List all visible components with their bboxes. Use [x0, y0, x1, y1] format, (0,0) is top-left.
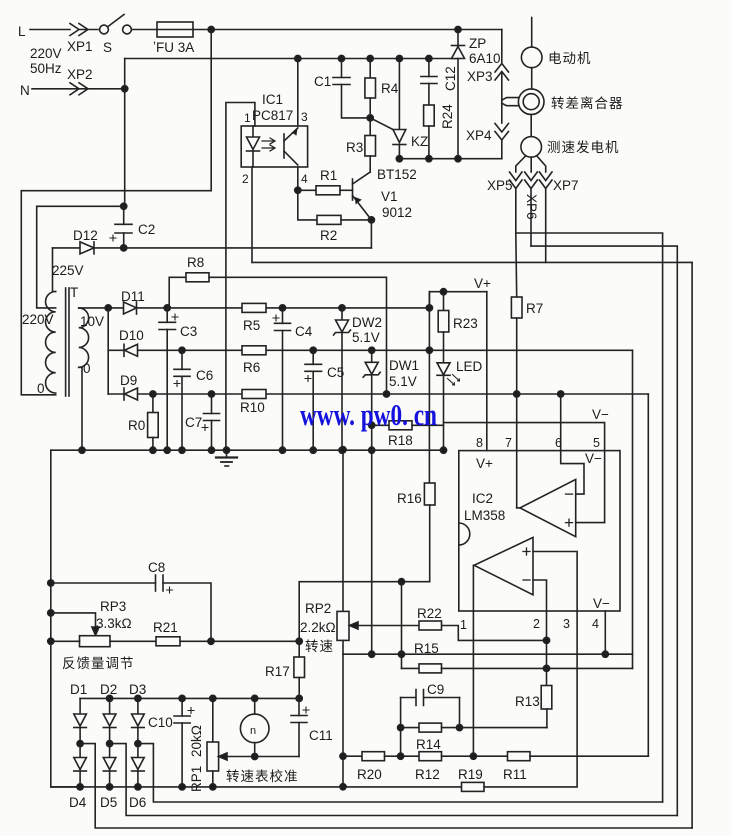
capacitor C10 [179, 695, 185, 701]
node sec top split [105, 305, 111, 311]
potentiometer RP2 body [342, 450, 344, 612]
wire secondary 0 tap down [79, 367, 82, 450]
resistor R18 [372, 424, 389, 426]
wire XP3 XP4 column [501, 30, 503, 64]
svg-text:C10: C10 [148, 715, 173, 730]
node N col 206 [121, 203, 127, 209]
resistor R0 [152, 394, 154, 413]
meter M [252, 695, 258, 701]
svg-text:1: 1 [460, 618, 467, 632]
svg-text:转速表校准: 转速表校准 [226, 768, 299, 784]
svg-text:ʼFU 3A: ʼFU 3A [153, 40, 194, 55]
node row58 C1 [338, 55, 344, 61]
svg-text:R7: R7 [526, 301, 543, 316]
wire D12 row [53, 247, 372, 249]
svg-text:C7: C7 [185, 415, 202, 430]
wire IC1 pin4 down [297, 167, 299, 190]
svg-text:R12: R12 [415, 767, 440, 782]
SEC7 labels [18, 24, 624, 810]
diode D2 [109, 698, 111, 714]
wire pin4 column [604, 611, 606, 654]
wire left drop from fuse junction [21, 30, 211, 395]
resistor R21 [156, 637, 180, 646]
wire D2 mid tap to bottom bus2 [110, 744, 678, 816]
resistor R6 [242, 346, 266, 355]
svg-text:R11: R11 [503, 767, 527, 782]
svg-text:XP7: XP7 [553, 178, 579, 193]
wire V+ jog [429, 292, 486, 308]
resistor R8 [169, 277, 186, 308]
wire V- row to pin5 [444, 423, 605, 523]
wire row2 D10 [108, 349, 632, 351]
svg-text:V−: V− [593, 596, 610, 611]
resistor R15 row [402, 667, 420, 669]
svg-text:反馈量调节: 反馈量调节 [62, 656, 135, 671]
svg-text:R8: R8 [187, 255, 204, 270]
wire BT152 row [399, 158, 501, 160]
svg-text:R6: R6 [243, 360, 260, 375]
resistor R4 [369, 59, 371, 79]
wire N column down to C2 [124, 59, 126, 207]
wire R15 left leg [401, 582, 403, 669]
svg-text:R5: R5 [243, 318, 260, 333]
svg-text:RP1: RP1 [189, 766, 204, 792]
svg-text:20kΩ: 20kΩ [189, 725, 204, 757]
node row2 C5 [310, 347, 316, 353]
potentiometer RP3 wiper [51, 613, 96, 629]
capacitor C9 loop [401, 690, 460, 706]
svg-text:6A10: 6A10 [469, 51, 501, 66]
motor circle [531, 18, 533, 48]
node row1 DW2 [339, 305, 345, 311]
resistor R5 [242, 303, 266, 312]
op-amp U2A triangle [520, 479, 576, 536]
svg-text:R24: R24 [440, 104, 455, 129]
wire Vplus column with R16 [428, 292, 430, 483]
diode D11 [124, 302, 137, 314]
transistor V1 [352, 179, 354, 200]
resistor R13 [546, 668, 548, 685]
wire secondary top row1 [79, 307, 430, 309]
svg-text:4: 4 [301, 172, 308, 186]
svg-text:XP3: XP3 [467, 69, 493, 84]
svg-text:D5: D5 [100, 795, 117, 810]
wire tacho to XP5 [516, 156, 526, 172]
wire D1 mid tap to bottom bus3 [80, 744, 692, 828]
svg-text:C9: C9 [427, 682, 444, 697]
op-amp U2A plus wire to pin5 [576, 522, 605, 524]
svg-text:R15: R15 [414, 641, 439, 656]
svg-text:D2: D2 [100, 682, 117, 697]
node pin2 R15 [543, 665, 549, 671]
transformer core [65, 288, 67, 396]
svg-text:5.1V: 5.1V [389, 374, 417, 389]
svg-text:8: 8 [476, 436, 483, 450]
capacitor C7 [211, 394, 213, 414]
SEC2 [51, 273, 649, 658]
svg-text:5: 5 [593, 436, 600, 450]
IC2 box [459, 451, 620, 611]
capacitor C5 [312, 350, 314, 364]
transformer T primary coil [46, 292, 56, 394]
capacitor C4 [282, 308, 284, 323]
op-amp U2B minus wire to pin2 [533, 580, 547, 668]
wire D3 mid tap to bottom bus1 [138, 744, 663, 802]
wire XP7 long column right [691, 262, 693, 828]
svg-text:n: n [250, 725, 256, 737]
svg-text:DW1: DW1 [389, 358, 419, 373]
wire RP2 bottom column [342, 654, 344, 787]
op-amp U2B plus wire to pin3 [533, 552, 577, 787]
wire row 58 to right components [125, 58, 458, 60]
svg-text:D3: D3 [129, 682, 146, 697]
svg-text:C8: C8 [148, 560, 165, 575]
resistor R7 on XP5 column [511, 297, 522, 318]
potentiometer RP1 wiper [219, 753, 227, 760]
svg-text:R4: R4 [381, 81, 399, 96]
svg-text:R21: R21 [153, 620, 178, 635]
wire row2 descent to V- bottom [632, 350, 634, 668]
diode D5 [109, 744, 111, 758]
wire XP5 long row [516, 233, 663, 802]
svg-text:L: L [18, 24, 26, 39]
node row1 C4 [279, 305, 285, 311]
svg-text:XP2: XP2 [67, 67, 93, 82]
svg-text:7: 7 [505, 436, 512, 450]
tacho generator circle [521, 137, 542, 158]
svg-text:ZP: ZP [469, 36, 486, 51]
svg-text:R19: R19 [458, 767, 483, 782]
capacitor C3 [166, 308, 168, 322]
svg-text:V−: V− [585, 451, 602, 466]
svg-text:D1: D1 [70, 682, 87, 697]
LED [437, 363, 450, 375]
ground symbol [226, 450, 228, 457]
wire pin7 column [516, 394, 518, 508]
connector XP7 arrows [539, 172, 552, 189]
svg-text:C3: C3 [180, 324, 197, 339]
svg-text:R10: R10 [240, 400, 265, 415]
svg-text:C4: C4 [295, 324, 313, 339]
node C2 bottom on D12 row [121, 245, 127, 251]
svg-text:电动机: 电动机 [548, 51, 592, 66]
svg-text:220V: 220V [30, 46, 62, 61]
clutch fork [502, 98, 519, 101]
svg-text:RP3: RP3 [100, 599, 126, 614]
svg-text:C11: C11 [309, 728, 333, 743]
svg-text:225V: 225V [52, 263, 84, 278]
zener DW1 [371, 350, 373, 362]
SEC4 V+ / IC2 region [424, 233, 648, 787]
svg-text:0: 0 [37, 381, 45, 396]
resistor R24 [424, 105, 435, 126]
wire XP6 long row [531, 246, 677, 815]
resistor R14 row [401, 727, 419, 729]
svg-text:LED: LED [456, 359, 483, 374]
svg-text:D9: D9 [120, 373, 137, 388]
wire D bottom long row with R19 [51, 786, 462, 788]
svg-text:V1: V1 [381, 189, 398, 204]
node row3 R0 [150, 391, 156, 397]
switch S [100, 25, 109, 34]
svg-text:4: 4 [592, 617, 599, 631]
svg-text:N: N [20, 83, 30, 98]
opto LED inside IC1 [252, 126, 254, 137]
resistor R23 [443, 292, 445, 311]
opto arrows [262, 138, 275, 144]
diode D10 [123, 344, 125, 356]
node D11 out [164, 305, 170, 311]
svg-text:转差离合器: 转差离合器 [551, 95, 624, 111]
opto transistor inside IC1 [283, 134, 285, 158]
capacitor C6 [181, 350, 183, 369]
node row2 C6 [179, 347, 185, 353]
connector XP2 [70, 83, 88, 95]
svg-text:R1: R1 [320, 168, 337, 183]
connector XP5 arrows [510, 172, 523, 189]
svg-text:0: 0 [83, 361, 91, 376]
potentiometer RP2 wiper [350, 622, 359, 629]
SEC5 lower left [48, 447, 633, 787]
node row2 DW1 [369, 347, 375, 353]
wire V- bottom row RP2 to pin4 [343, 653, 633, 655]
diode D12 [80, 242, 94, 254]
capacitor C8 row [51, 582, 156, 584]
diode D9 [123, 388, 125, 400]
wire IC1 pin2 down long [251, 167, 253, 262]
svg-text:1: 1 [244, 111, 251, 125]
resistor R12 [419, 752, 442, 761]
wire long row pin2 to XP7 bus [252, 261, 692, 263]
svg-text:R18: R18 [388, 433, 413, 448]
resistor R10 [242, 390, 266, 399]
svg-text:R14: R14 [416, 737, 441, 752]
node row58 KZ [396, 55, 402, 61]
svg-text:6: 6 [555, 436, 562, 450]
node secondary 0 on ground row [79, 447, 85, 453]
svg-text:转速: 转速 [305, 639, 334, 654]
svg-text:XP5: XP5 [487, 178, 513, 193]
wire 225V to primary top [53, 248, 56, 292]
SEC3 top middle components [241, 18, 692, 829]
resistor R16 [424, 483, 435, 505]
connector XP1 [70, 24, 98, 36]
wire left bus down [51, 450, 80, 787]
svg-text:D11: D11 [121, 289, 145, 304]
svg-text:R0: R0 [128, 418, 145, 433]
wire switch to fuse [132, 29, 158, 31]
wire IC2 pin8 column [486, 292, 488, 451]
diode D3 [137, 698, 139, 714]
svg-text:C1: C1 [314, 74, 331, 89]
svg-text:T: T [70, 285, 78, 300]
wire top D row [80, 697, 299, 699]
svg-text:C5: C5 [327, 365, 344, 380]
svg-text:XP6: XP6 [524, 194, 539, 220]
diode D4 [79, 744, 81, 758]
svg-text:R16: R16 [397, 491, 422, 506]
svg-text:3.3kΩ: 3.3kΩ [96, 616, 132, 631]
svg-text:50Hz: 50Hz [30, 61, 62, 76]
node pin4 R1 [295, 187, 301, 193]
svg-text:XP1: XP1 [67, 39, 93, 54]
wire 220V tap [37, 206, 124, 308]
svg-text:R3: R3 [346, 140, 363, 155]
svg-text:V+: V+ [476, 456, 493, 471]
capacitor C1 [341, 59, 343, 78]
svg-text:R20: R20 [357, 767, 382, 782]
diode D6 [137, 744, 139, 758]
node row58 C12 [426, 55, 432, 61]
svg-text:D10: D10 [119, 328, 144, 343]
svg-text:C6: C6 [196, 368, 213, 383]
svg-text:D6: D6 [129, 795, 146, 810]
svg-text:PC817: PC817 [252, 108, 293, 123]
resistor R22 [419, 621, 442, 630]
wire IC1 pin3 up [297, 59, 299, 127]
svg-text:V−: V− [592, 407, 609, 422]
wire fuse to XP3 corner [193, 29, 502, 31]
capacitor C2 [123, 206, 125, 224]
svg-text:V+: V+ [474, 276, 491, 291]
svg-text:C2: C2 [138, 222, 155, 237]
resistor R19 [462, 782, 485, 791]
svg-text:D4: D4 [69, 795, 87, 810]
svg-text:R23: R23 [453, 316, 478, 331]
capacitor C12 [428, 59, 430, 77]
svg-text:3: 3 [301, 110, 308, 124]
svg-text:2.2kΩ: 2.2kΩ [300, 620, 336, 635]
svg-text:2: 2 [533, 617, 540, 631]
zener DW2 [341, 308, 343, 320]
resistor R11 [508, 752, 531, 761]
SEC6 bottom [51, 654, 692, 828]
resistor R2 [298, 190, 317, 220]
node row3 pin6 [558, 391, 564, 397]
diode ZP [457, 30, 459, 46]
svg-text:测速发电机: 测速发电机 [547, 140, 620, 155]
wire V1 emitter to D12 row [370, 220, 372, 248]
svg-text:9012: 9012 [382, 205, 412, 220]
svg-text:KZ: KZ [411, 134, 428, 149]
svg-text:R2: R2 [320, 228, 337, 243]
slip clutch double circle [518, 89, 544, 115]
svg-text:R13: R13 [515, 694, 540, 709]
potentiometer RP3 body [80, 636, 111, 647]
svg-text:10V: 10V [80, 314, 104, 329]
op-amp U2B triangle [474, 537, 533, 594]
svg-text:RP2: RP2 [305, 601, 331, 616]
node row58 R4 [367, 55, 373, 61]
node L-fuse junction [208, 26, 214, 32]
svg-text:www. pw0. cn: www. pw0. cn [300, 397, 437, 432]
svg-text:IC2: IC2 [472, 491, 493, 506]
op-amp U2A output to pin7 [517, 507, 520, 509]
svg-text:LM358: LM358 [464, 508, 505, 523]
svg-text:3: 3 [563, 617, 570, 631]
wire ground row [51, 449, 444, 451]
svg-text:R17: R17 [265, 664, 290, 679]
IC2 notch [459, 523, 470, 545]
connector XP6 arrows [525, 172, 538, 189]
svg-text:XP4: XP4 [466, 128, 492, 143]
potentiometer RP1 [210, 695, 216, 701]
svg-text:IC1: IC1 [262, 92, 283, 107]
fuse FU 3A [157, 22, 193, 37]
wire row3 D9 [108, 393, 648, 395]
resistor R1 [298, 189, 316, 191]
node row3 C7 [208, 391, 214, 397]
svg-text:BT152: BT152 [377, 167, 417, 182]
thyristor KZ [398, 59, 400, 130]
node row58 pin3 [295, 55, 301, 61]
svg-text:R22: R22 [417, 606, 442, 621]
svg-text:DW2: DW2 [352, 315, 382, 330]
svg-text:5.1V: 5.1V [352, 330, 380, 345]
resistor R17 [298, 641, 300, 657]
node ZP top [455, 26, 461, 32]
wire pin6 column and jog [561, 394, 584, 494]
node N junction [122, 86, 128, 92]
transformer secondary coil [79, 308, 89, 367]
wire sec split column [107, 308, 109, 394]
wire tacho to XP6 [530, 157, 532, 172]
svg-text:C12: C12 [443, 66, 458, 91]
wire R21 row [51, 640, 80, 642]
resistor R3 [369, 118, 371, 136]
wire 581 row from R21 node [299, 582, 430, 642]
svg-text:2: 2 [242, 172, 249, 186]
svg-text:S: S [103, 40, 112, 55]
wire N line [32, 88, 125, 90]
wire ground column from IC1 pin1 [226, 103, 255, 451]
op-amp U2B output pin1 [472, 565, 475, 756]
svg-text:220V: 220V [22, 312, 54, 327]
node pin2 R22 [543, 637, 549, 643]
wire row3 descent to R11 row [647, 394, 649, 756]
IC1 box [241, 126, 307, 167]
diode D1 [79, 698, 81, 714]
svg-text:D12: D12 [73, 228, 98, 243]
resistor R20 row [343, 755, 362, 757]
wire L top rail [30, 29, 70, 31]
capacitor C11 [298, 698, 300, 715]
wire tacho to XP7 [537, 156, 546, 172]
